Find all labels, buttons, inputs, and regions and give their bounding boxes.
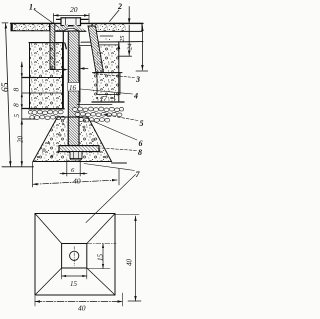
svg-text:40: 40	[73, 177, 81, 186]
svg-text:25: 25	[119, 35, 126, 42]
arrow to bolt left	[50, 69, 66, 71]
rubble stones band	[28, 107, 123, 122]
dim 15 vertical (right of inner square)	[87, 243, 116, 245]
svg-text:20: 20	[70, 5, 78, 14]
svg-text:40: 40	[78, 304, 86, 313]
svg-text:24: 24	[127, 43, 134, 50]
svg-text:5: 5	[13, 114, 21, 118]
tick arrows	[21, 73, 23, 77]
left foundation block	[30, 43, 63, 109]
svg-text:1: 1	[29, 3, 33, 12]
dim 25: arrow from above	[128, 7, 130, 24]
tick y77.5	[22, 77, 36, 79]
anchor bolt	[68, 31, 79, 146]
svg-text:40: 40	[126, 259, 134, 267]
bolt top shading line	[57, 18, 89, 20]
dim 40 horizontal bottom	[34, 296, 36, 306]
svg-text:6: 6	[139, 139, 143, 148]
svg-text:6: 6	[71, 167, 75, 174]
dim 40 bottom of section	[32, 162, 34, 187]
shim line under bed right	[100, 35, 113, 37]
plan outer square	[35, 214, 115, 296]
bolt diameter arrows handled above; label 16 box on bolt	[68, 83, 80, 92]
course line y72.8 with left arrow	[93, 72, 123, 74]
dim 6 under nut	[66, 160, 68, 177]
lower nut	[70, 152, 82, 159]
svg-text:15: 15	[70, 280, 78, 288]
machine bed flange left	[11, 23, 50, 30]
pit left wall	[62, 31, 64, 109]
dim 65 left	[6, 24, 11, 167]
dim 15 horizontal (below inner square)	[61, 268, 63, 279]
dim 24 right edge	[141, 26, 143, 70]
arrow to bolt right	[82, 68, 89, 70]
svg-text:7: 7	[136, 170, 141, 179]
foundation top line	[29, 42, 63, 44]
concrete plug trapezoid	[33, 117, 112, 162]
svg-text:65: 65	[1, 82, 11, 92]
machine bed top line	[11, 22, 144, 24]
plan inner square	[62, 244, 87, 269]
tick y93	[22, 92, 33, 94]
svg-text:4: 4	[133, 92, 138, 101]
right foundation block	[93, 45, 119, 102]
svg-text:20: 20	[17, 136, 25, 144]
anchor plate	[59, 146, 99, 152]
svg-text:8: 8	[12, 88, 21, 92]
dim 40 vertical right	[115, 214, 139, 216]
svg-text:3: 3	[135, 75, 140, 84]
svg-text:8: 8	[12, 103, 21, 107]
bottom course line	[92, 101, 124, 103]
right form board sloped	[88, 26, 104, 73]
svg-text:17: 17	[100, 95, 108, 103]
ground line right	[112, 162, 127, 164]
plan diagonals	[35, 214, 62, 244]
level arrow on block edge	[117, 43, 120, 49]
bolt hole circle	[70, 251, 79, 260]
machine bed flange right	[92, 23, 142, 31]
spherical washer	[56, 26, 86, 31]
chain dimension line 8 8 5 and 20	[21, 62, 23, 166]
tick y119	[22, 118, 38, 120]
svg-text:2: 2	[117, 2, 122, 11]
bolt continues through trapezoid	[68, 117, 79, 146]
svg-text:5: 5	[140, 119, 144, 128]
centerline	[73, 247, 75, 266]
svg-text:15: 15	[97, 254, 105, 262]
dimension 20 top	[54, 14, 90, 16]
bolt tip under nut	[71, 159, 81, 161]
left form board	[50, 24, 55, 70]
grout line right	[95, 44, 119, 46]
nut	[61, 18, 81, 26]
dim 25 line down to y55.5	[128, 25, 130, 56]
extra aggregate in plug	[37, 123, 105, 158]
course 2 box	[97, 73, 120, 95]
mark near pit corner	[65, 43, 67, 49]
svg-text:8: 8	[138, 148, 142, 157]
tick y108.5	[22, 108, 36, 110]
svg-text:16: 16	[69, 84, 77, 92]
ground line left	[2, 166, 34, 168]
